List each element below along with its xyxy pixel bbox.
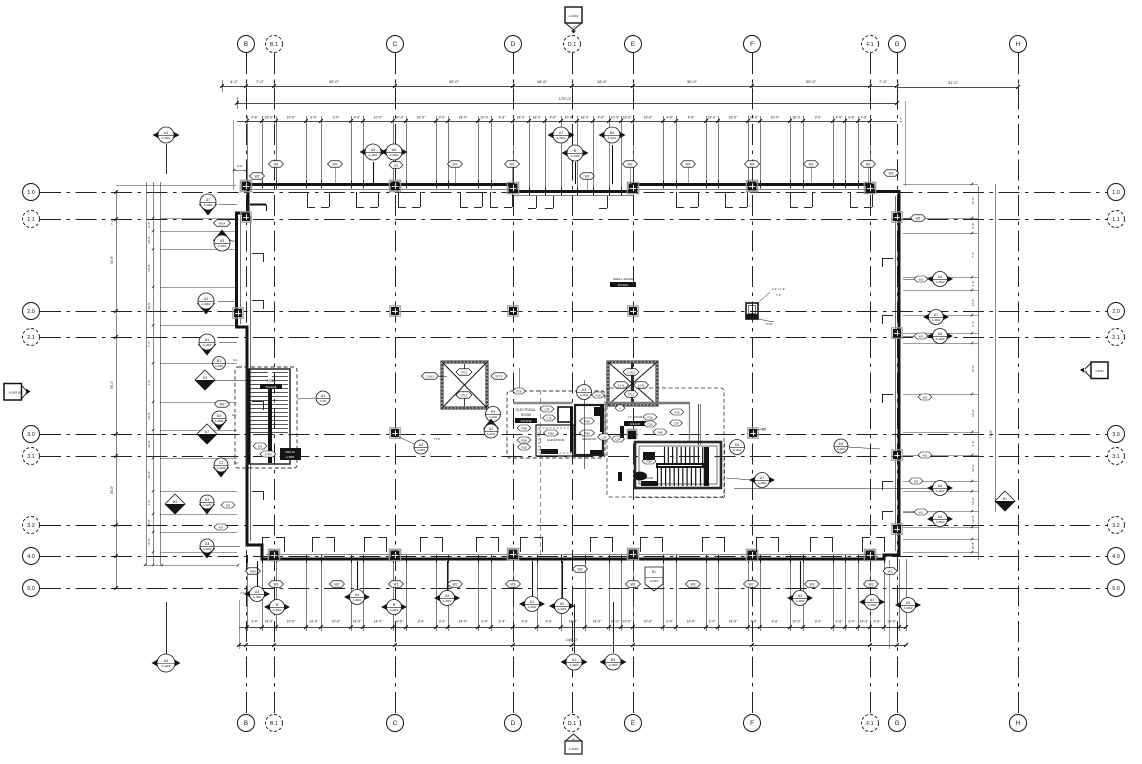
svg-text:A-3001: A-3001: [650, 579, 659, 583]
svg-text:A-3002: A-3002: [443, 599, 452, 603]
svg-text:18'-6": 18'-6": [537, 79, 548, 84]
svg-text:W2: W2: [226, 503, 231, 507]
svg-text:W1: W1: [919, 277, 924, 281]
svg-text:F4B: F4B: [657, 430, 662, 434]
svg-text:4'-0": 4'-0": [237, 164, 243, 168]
elevator shaft 1: [442, 362, 487, 408]
right edge section flag: [1091, 362, 1108, 379]
svg-text:3'-4": 3'-4": [848, 620, 856, 624]
svg-text:14'-0": 14'-0": [309, 620, 318, 624]
svg-text:5.0: 5.0: [27, 586, 35, 592]
svg-text:4.0: 4.0: [27, 554, 35, 560]
bottom band window tags: [269, 581, 284, 588]
svg-text:3'-4": 3'-4": [251, 620, 259, 624]
svg-text:E: E: [631, 720, 635, 727]
svg-text:4.0: 4.0: [1112, 554, 1120, 560]
svg-text:W2: W2: [255, 174, 260, 178]
svg-text:F: F: [750, 41, 754, 48]
svg-text:W2: W2: [585, 174, 590, 178]
svg-text:30'-8": 30'-8": [110, 256, 114, 264]
top dimension row 3: mullion dims + comb: [237, 121, 897, 123]
P4 circle at shaft corner: [486, 407, 501, 422]
svg-text:A3: A3: [798, 594, 802, 598]
svg-text:3.2: 3.2: [1112, 523, 1120, 529]
svg-text:F: F: [750, 720, 754, 727]
svg-text:30'-8": 30'-8": [147, 440, 151, 448]
svg-text:4'-6": 4'-6": [751, 620, 759, 624]
left stair tags: [253, 443, 267, 449]
svg-text:A-3002: A-3002: [390, 608, 399, 612]
svg-text:12'-0": 12'-0": [971, 299, 975, 307]
svg-text:A-3001: A-3001: [733, 448, 742, 452]
grid bubbles right: [1108, 184, 1125, 201]
svg-text:A-3001: A-3001: [837, 447, 846, 451]
svg-text:18'-0": 18'-0": [708, 116, 717, 120]
svg-text:7'-4": 7'-4": [147, 341, 151, 347]
svg-text:5.0: 5.0: [1112, 586, 1120, 592]
top band window tags: [269, 161, 284, 168]
svg-text:A-3003: A-3003: [1095, 369, 1104, 373]
svg-text:3'-4": 3'-4": [815, 620, 823, 624]
svg-text:10'-0": 10'-0": [644, 620, 653, 624]
electrical equipment: [558, 407, 572, 422]
svg-text:A7: A7: [205, 430, 209, 434]
svg-text:30'-8": 30'-8": [147, 302, 151, 310]
svg-text:W3: W3: [691, 582, 696, 586]
svg-text:18'-0": 18'-0": [623, 116, 632, 120]
svg-text:F1B: F1B: [647, 415, 652, 419]
svg-text:2-141: 2-141: [618, 383, 625, 387]
IT room tags: [615, 405, 625, 411]
svg-text:A-3011: A-3011: [489, 415, 498, 419]
svg-text:A4: A4: [217, 414, 221, 418]
svg-text:A-3000: A-3000: [936, 280, 945, 284]
svg-text:4'-6": 4'-6": [666, 116, 674, 120]
left side annotation tags: [199, 204, 217, 216]
electrical room top wall: [513, 402, 572, 405]
svg-text:A-3002: A-3002: [868, 603, 877, 607]
svg-text:A-3011: A-3011: [487, 432, 496, 436]
svg-text:F.1: F.1: [866, 721, 873, 727]
svg-text:W2: W2: [916, 216, 921, 220]
svg-text:18'-0": 18'-0": [729, 116, 738, 120]
top dimension row 2: overall 170ft: [237, 103, 897, 105]
top dimension row 1: grid dims: [222, 86, 897, 88]
svg-text:1.1: 1.1: [27, 217, 35, 223]
svg-text:W2A: W2A: [250, 569, 256, 573]
svg-text:A3: A3: [205, 498, 209, 502]
interior columns: [390, 306, 400, 316]
svg-text:A4: A4: [938, 332, 942, 336]
svg-text:C1: C1: [219, 461, 224, 465]
svg-text:7'-4": 7'-4": [147, 380, 151, 386]
left edge section flag: [4, 384, 22, 401]
svg-text:A3: A3: [906, 601, 910, 605]
svg-text:8'-0": 8'-0": [971, 223, 975, 229]
svg-text:18'-0": 18'-0": [533, 116, 542, 120]
svg-text:H: H: [1016, 41, 1020, 48]
right flank dimension ladder: [903, 184, 978, 186]
svg-text:A1: A1: [530, 600, 534, 604]
svg-text:A-3000: A-3000: [936, 489, 945, 493]
inner wall face lines: [250, 189, 511, 191]
svg-text:12'-0": 12'-0": [971, 365, 975, 373]
svg-text:10'-0": 10'-0": [480, 116, 489, 120]
svg-text:4'-6": 4'-6": [354, 116, 362, 120]
svg-text:ROOM: ROOM: [521, 413, 531, 417]
svg-text:4'-6": 4'-6": [499, 116, 507, 120]
svg-text:P4: P4: [491, 410, 495, 414]
svg-text:10'-8": 10'-8": [147, 264, 151, 272]
svg-text:A4: A4: [164, 659, 168, 663]
elevator shaft 2: [608, 362, 657, 405]
svg-text:G: G: [895, 41, 900, 48]
svg-text:30'-0": 30'-0": [449, 79, 460, 84]
svg-text:12'-0": 12'-0": [971, 515, 975, 523]
svg-text:B1: B1: [217, 359, 221, 363]
svg-text:A-3002: A-3002: [904, 606, 913, 610]
svg-text:10'-0": 10'-0": [565, 116, 574, 120]
bottom band section markers: [257, 561, 259, 588]
svg-text:STAIR: STAIR: [266, 379, 276, 383]
grid bubbles bottom: [238, 715, 255, 732]
svg-text:18'-0": 18'-0": [581, 116, 590, 120]
svg-text:S04-001A: S04-001A: [618, 284, 629, 287]
bottom mullion comb and dims: [239, 627, 906, 629]
svg-text:W2: W2: [686, 162, 691, 166]
svg-text:3'-4": 3'-4": [499, 620, 507, 624]
A1 circle near right wall: [848, 447, 880, 449]
svg-text:14'-0": 14'-0": [265, 620, 274, 624]
elevation flag A-3001 bottom: [645, 567, 663, 591]
window mullion ticks bottom wall: [247, 555, 249, 563]
svg-text:A-3002: A-3002: [570, 663, 579, 667]
svg-text:12'-0": 12'-0": [971, 464, 975, 472]
svg-text:W2: W2: [510, 162, 515, 166]
svg-text:A-3000: A-3000: [936, 520, 945, 524]
svg-text:F1B: F1B: [521, 445, 526, 449]
svg-text:4'-6": 4'-6": [874, 620, 882, 624]
svg-text:18'-6": 18'-6": [597, 79, 608, 84]
svg-text:B.1: B.1: [270, 721, 278, 727]
svg-text:S04-001T: S04-001T: [630, 423, 641, 426]
svg-text:4'-6": 4'-6": [861, 116, 869, 120]
svg-text:A3: A3: [582, 388, 586, 392]
svg-text:LINK 4A: LINK 4A: [285, 450, 295, 454]
svg-text:7'-4": 7'-4": [971, 441, 975, 447]
svg-text:A-3000: A-3000: [609, 663, 618, 667]
svg-text:3'-0": 3'-0": [439, 116, 447, 120]
svg-text:B: B: [244, 41, 248, 48]
svg-text:4'-6": 4'-6": [848, 116, 856, 120]
svg-text:B: B: [244, 720, 248, 727]
svg-text:A-3002: A-3002: [215, 364, 224, 368]
svg-text:A2: A2: [204, 297, 208, 301]
top band section markers: [373, 162, 375, 184]
svg-text:A3: A3: [220, 239, 224, 243]
svg-text:A-3002: A-3002: [162, 136, 171, 140]
svg-text:3.1: 3.1: [1112, 454, 1120, 460]
svg-text:14'-0": 14'-0": [860, 620, 869, 624]
svg-text:3.0: 3.0: [1112, 432, 1120, 438]
svg-text:A6: A6: [392, 148, 396, 152]
svg-text:3'-4": 3'-4": [418, 620, 426, 624]
typ column note near C/3.0: [399, 437, 414, 444]
svg-text:4'-6": 4'-6": [598, 116, 606, 120]
D4 circle right of stair: [730, 440, 745, 455]
svg-text:148'-0": 148'-0": [566, 637, 579, 642]
svg-text:W3: W3: [923, 395, 928, 399]
svg-text:W2: W2: [274, 162, 279, 166]
svg-text:F1B: F1B: [516, 389, 521, 393]
right tag leaders: [903, 218, 910, 220]
svg-text:A-3002: A-3002: [203, 503, 212, 507]
svg-text:56'-4": 56'-4": [110, 381, 114, 389]
svg-text:10'-0": 10'-0": [611, 116, 620, 120]
svg-text:A2: A2: [560, 602, 564, 606]
svg-text:14'-0": 14'-0": [569, 620, 578, 624]
structural columns bottom wall: [268, 549, 279, 560]
svg-text:C36: C36: [647, 422, 653, 426]
svg-text:S04-001E: S04-001E: [521, 420, 532, 423]
section circle A3/A-3011: [584, 380, 586, 469]
svg-text:74'-0": 74'-0": [989, 430, 993, 438]
svg-text:W3: W3: [219, 525, 224, 529]
svg-text:A-3004: A-3004: [608, 136, 617, 140]
structural columns right wall: [892, 212, 902, 222]
svg-text:A4: A4: [938, 275, 942, 279]
svg-text:B3: B3: [173, 500, 177, 504]
svg-text:14'-0": 14'-0": [374, 620, 383, 624]
svg-text:A-3002: A-3002: [215, 419, 224, 423]
svg-text:3'-4": 3'-4": [666, 620, 674, 624]
svg-text:A7: A7: [206, 198, 210, 202]
note near F/3.0: [757, 428, 766, 430]
svg-text:A-3000: A-3000: [936, 337, 945, 341]
svg-text:7'-4": 7'-4": [971, 321, 975, 327]
svg-text:TFTF: TFTF: [496, 374, 503, 378]
svg-text:P4B: P4B: [521, 426, 526, 430]
svg-text:2.1: 2.1: [27, 335, 35, 341]
svg-text:C: C: [393, 41, 398, 48]
svg-text:14'-0": 14'-0": [887, 620, 896, 624]
svg-text:W1: W1: [888, 569, 893, 573]
svg-text:4'-6": 4'-6": [522, 620, 530, 624]
svg-text:W2: W2: [923, 453, 928, 457]
svg-text:A3: A3: [255, 590, 259, 594]
svg-text:4'-6": 4'-6": [836, 116, 844, 120]
svg-text:W2: W2: [914, 479, 919, 483]
svg-text:A-302: A-302: [320, 399, 327, 403]
svg-text:5'-10": 5'-10": [766, 322, 773, 326]
svg-text:B.1: B.1: [270, 42, 278, 48]
svg-text:W2: W2: [866, 162, 871, 166]
svg-text:H: H: [1016, 720, 1020, 727]
upper-left marker with stem: [166, 144, 168, 174]
svg-text:7'-4": 7'-4": [971, 281, 975, 287]
svg-text:W1: W1: [919, 510, 924, 514]
svg-text:B1: B1: [1003, 497, 1007, 501]
svg-text:W2: W2: [453, 582, 458, 586]
svg-text:10'-0": 10'-0": [611, 620, 620, 624]
svg-text:18'-0": 18'-0": [792, 116, 801, 120]
svg-text:F1B: F1B: [674, 410, 679, 414]
svg-text:2-141: 2-141: [638, 383, 645, 387]
svg-text:A-3002: A-3002: [558, 607, 567, 611]
svg-text:I.T. ROOM: I.T. ROOM: [628, 415, 643, 419]
svg-text:S04-001B: S04-001B: [266, 386, 277, 389]
svg-text:W3: W3: [810, 582, 815, 586]
svg-text:31'-0": 31'-0": [948, 80, 959, 85]
svg-text:W1: W1: [394, 582, 399, 586]
svg-text:A1: A1: [572, 658, 576, 662]
svg-text:ELEVATOR #1: ELEVATOR #1: [547, 438, 565, 442]
svg-text:W2: W2: [889, 171, 894, 175]
svg-text:A1: A1: [489, 427, 493, 431]
svg-text:E: E: [631, 41, 635, 48]
A7 marker right of right stair: [726, 478, 752, 480]
svg-text:A-3004: A-3004: [571, 154, 580, 158]
svg-text:A-3002: A-3002: [162, 664, 171, 668]
window mullion ticks top wall: [247, 181, 249, 189]
svg-text:C3F: C3F: [673, 421, 679, 425]
svg-text:W2: W2: [274, 582, 279, 586]
svg-text:10'-0": 10'-0": [332, 620, 341, 624]
svg-text:A-3011: A-3011: [580, 393, 589, 397]
svg-text:1'-2" x 1'-2": 1'-2" x 1'-2": [772, 287, 785, 291]
svg-text:Sim: Sim: [234, 461, 238, 465]
horizontal grid lines: [40, 192, 1107, 194]
svg-text:4'-6": 4'-6": [550, 116, 558, 120]
svg-text:W2: W2: [333, 162, 338, 166]
svg-text:W1: W1: [394, 163, 399, 167]
svg-text:18'-0": 18'-0": [459, 116, 468, 120]
svg-text:A-3002: A-3002: [417, 448, 426, 452]
svg-text:A3: A3: [419, 443, 423, 447]
svg-text:A-3002: A-3002: [528, 605, 537, 609]
svg-text:B4: B4: [610, 131, 614, 135]
svg-text:3'-4": 3'-4": [481, 620, 489, 624]
svg-text:A4: A4: [371, 148, 375, 152]
svg-text:10'-0": 10'-0": [374, 116, 383, 120]
bottom center flag below D.1: [566, 734, 581, 741]
svg-text:10'-8": 10'-8": [971, 542, 975, 550]
svg-text:170'-0": 170'-0": [559, 96, 572, 101]
svg-text:STAIR: STAIR: [645, 476, 653, 480]
svg-text:12'-0": 12'-0": [971, 497, 975, 505]
svg-text:8'-0": 8'-0": [147, 222, 151, 228]
svg-text:A-3002: A-3002: [273, 608, 282, 612]
bottom lower markers with stems: [574, 604, 576, 653]
svg-text:3'-4": 3'-4": [439, 620, 447, 624]
svg-text:P3M: P3M: [548, 431, 554, 435]
svg-text:A4: A4: [164, 131, 168, 135]
svg-text:C3F: C3F: [544, 407, 550, 411]
svg-text:10'-0": 10'-0": [771, 116, 780, 120]
building exterior wall outline: [237, 185, 900, 560]
svg-text:A-3002: A-3002: [217, 466, 226, 470]
svg-text:A1: A1: [321, 394, 325, 398]
grid bubbles top: [238, 36, 255, 53]
svg-text:A1: A1: [870, 598, 874, 602]
svg-text:10'-0": 10'-0": [395, 116, 404, 120]
svg-text:A4: A4: [938, 515, 942, 519]
svg-text:A7: A7: [760, 476, 764, 480]
svg-text:4'-6": 4'-6": [688, 116, 696, 120]
svg-text:W2: W2: [220, 402, 225, 406]
svg-text:3.0: 3.0: [27, 432, 35, 438]
svg-text:7'-2": 7'-2": [110, 219, 114, 225]
structural columns left wall: [233, 308, 243, 318]
svg-text:A-3002: A-3002: [932, 318, 941, 322]
svg-text:3'-0": 3'-0": [333, 116, 341, 120]
svg-text:P3M: P3M: [584, 431, 590, 435]
grid bubbles left: [23, 184, 40, 201]
svg-text:1.0: 1.0: [27, 190, 35, 196]
elevator machine room: [575, 405, 603, 455]
svg-text:3.2: 3.2: [27, 523, 35, 529]
svg-text:B1: B1: [652, 570, 656, 574]
svg-text:14'-0": 14'-0": [459, 620, 468, 624]
svg-text:W2: W2: [628, 162, 633, 166]
svg-text:W2: W2: [749, 582, 754, 586]
svg-text:P6: P6: [762, 428, 766, 432]
svg-text:C3F: C3F: [601, 435, 607, 439]
A1 marker left of electrical room: [483, 419, 499, 430]
svg-text:30'-8": 30'-8": [147, 236, 151, 244]
svg-text:F.1: F.1: [866, 42, 873, 48]
hooks inside right wall: [882, 258, 893, 260]
hooks inside left wall: [252, 253, 263, 255]
svg-text:7'-4": 7'-4": [971, 252, 975, 258]
svg-text:10'-8": 10'-8": [147, 412, 151, 420]
svg-text:W3: W3: [511, 582, 516, 586]
svg-text:D: D: [511, 41, 516, 48]
bottom overall dimension 148ft: [239, 645, 906, 647]
svg-text:10'-0": 10'-0": [417, 116, 426, 120]
svg-text:A-3004: A-3004: [369, 153, 378, 157]
vertical grid lines: [246, 53, 248, 714]
svg-text:4'-6": 4'-6": [836, 620, 844, 624]
svg-text:4'-6": 4'-6": [251, 116, 259, 120]
left stair body: [247, 369, 290, 464]
svg-text:A-3002: A-3002: [758, 481, 767, 485]
interior window-jamb hooks above bottom wall: [262, 537, 264, 552]
svg-text:ELECTRICAL: ELECTRICAL: [516, 408, 536, 412]
svg-text:30'-0": 30'-0": [806, 79, 817, 84]
svg-text:C: C: [393, 720, 398, 727]
right stair body: [635, 442, 721, 488]
right side annotation tags: [911, 215, 926, 222]
svg-text:3'-4": 3'-4": [709, 620, 717, 624]
svg-text:W2: W2: [578, 567, 583, 571]
svg-text:W1: W1: [919, 334, 924, 338]
svg-text:SHELL SPACE: SHELL SPACE: [613, 277, 633, 281]
svg-text:14'-0": 14'-0": [729, 620, 738, 624]
interior window-jamb hooks below top wall: [307, 192, 309, 207]
svg-text:W2: W2: [809, 162, 814, 166]
svg-text:4'-6": 4'-6": [396, 620, 404, 624]
feature at F/2.0: [746, 303, 758, 319]
svg-text:7'-2": 7'-2": [776, 293, 781, 297]
svg-text:STFM: STFM: [264, 452, 271, 456]
svg-text:14'-0": 14'-0": [353, 620, 362, 624]
svg-text:2.0: 2.0: [1112, 309, 1120, 315]
svg-text:30'-8": 30'-8": [147, 519, 151, 527]
svg-text:2-1412: 2-1412: [627, 370, 636, 374]
left flank dimension ladder: [116, 185, 236, 187]
svg-text:4'-6": 4'-6": [546, 620, 554, 624]
